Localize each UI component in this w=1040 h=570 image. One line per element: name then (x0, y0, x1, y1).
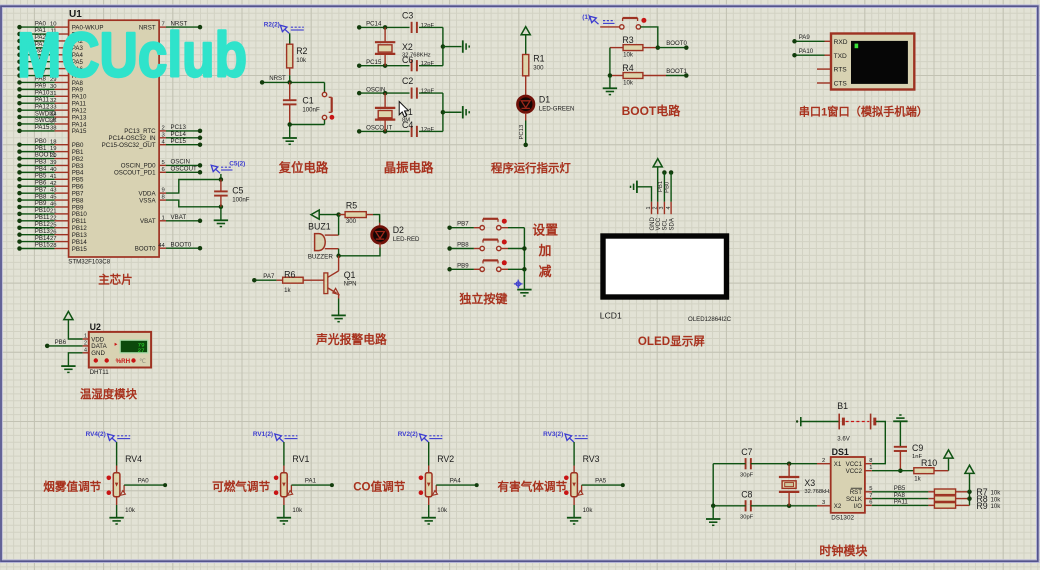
svg-text:8M: 8M (402, 118, 410, 124)
U1 left pin 21 (PB10) (55, 213, 69, 215)
BUZ1 pin top (325, 234, 339, 236)
wire net PA10 to U1 (20, 95, 55, 97)
wire to ground (443, 111, 462, 113)
svg-text:PB9: PB9 (457, 262, 469, 269)
push button PB9 (474, 268, 480, 270)
svg-text:PA4: PA4 (450, 478, 462, 485)
U1 left pin 40 (PB4) (55, 171, 69, 173)
svg-text:2: 2 (84, 341, 87, 347)
svg-text:PB6: PB6 (55, 339, 67, 346)
U1 left pin 34 (PA13) (55, 116, 69, 118)
U1 left pin 38 (PA15) (55, 130, 69, 132)
junction OSCOUT/crystal (383, 129, 388, 134)
node PB9 (447, 267, 452, 272)
U1 left pin 39 (PB3) (55, 164, 69, 166)
R2 lead to NRST node (289, 68, 291, 75)
wire net PB10 to U1 (20, 213, 55, 215)
junction C9/VCC2 (898, 468, 903, 473)
wire R10 to power (948, 458, 950, 470)
node PA0 (163, 483, 167, 487)
wire net PB8 (450, 248, 474, 250)
junction PB8 (522, 246, 527, 251)
ground OLED (rotated left) (636, 181, 638, 193)
svg-text:42: 42 (50, 181, 57, 187)
wire C8 right to X2 pin (751, 505, 817, 507)
serial terminal pin RXD (825, 40, 832, 42)
node NRST (198, 25, 203, 30)
wire net PB7 to U1 (20, 192, 55, 194)
wire battery to VCC1 (872, 422, 886, 464)
svg-text:RTS: RTS (834, 67, 848, 74)
junction R8 (967, 496, 972, 501)
wire D1 to PC13 (525, 113, 527, 121)
wire net PA11 to U1 (20, 102, 55, 104)
svg-text:X3: X3 (804, 478, 815, 488)
node OSCOUT (357, 129, 362, 134)
node PA3 (17, 46, 22, 51)
node SWDIO (17, 115, 22, 120)
wire net PA4 (436, 484, 477, 486)
wire to ground clock (712, 506, 714, 519)
svg-text:晶振电路: 晶振电路 (384, 160, 434, 175)
svg-text:温湿度模块: 温湿度模块 (80, 387, 138, 401)
capacitor C2 12pF (411, 88, 413, 99)
svg-text:2: 2 (162, 126, 165, 132)
wire net PA0 to U1 (20, 26, 55, 28)
wire button PB8 to common (508, 248, 524, 250)
svg-text:X1: X1 (834, 461, 842, 468)
wire net PA9 (795, 40, 825, 42)
svg-text:PA9: PA9 (799, 34, 811, 41)
U1 left pin 17 (PA7) (55, 75, 69, 77)
svg-text:9: 9 (162, 188, 165, 194)
wire common to ground (523, 269, 525, 289)
junction right (441, 44, 446, 49)
node PA9 (17, 87, 22, 92)
svg-text:R6: R6 (284, 270, 295, 280)
ground RV4 (109, 517, 123, 519)
wire net PB6 to U1 (20, 185, 55, 187)
svg-text:PB0: PB0 (665, 181, 671, 193)
RV2 wiper (435, 485, 437, 493)
wire net PC13 (166, 130, 200, 132)
U1 right pin 4 (PC15-OSC32_OUT) (159, 144, 166, 146)
U1 left pin 11 (PA1) (55, 33, 69, 35)
wire R3/R4 common (609, 48, 611, 76)
U1 right pin 1 (VBAT) (159, 220, 166, 222)
wire to ground (609, 76, 611, 88)
svg-text:VDDA: VDDA (139, 190, 157, 197)
svg-text:X2: X2 (834, 503, 842, 510)
svg-text:PA10: PA10 (799, 48, 814, 55)
wire VDDA to C5 top (166, 180, 221, 194)
U1 right pin 7 (NRST) (159, 26, 166, 28)
junction R5/BUZ1 (336, 212, 341, 217)
junction R4 left (608, 73, 613, 78)
potentiometer RV4 10k (113, 473, 120, 497)
U1 left pin 32 (PA11) (55, 102, 69, 104)
wire PB1 to SCL (663, 173, 665, 202)
resistor R10 1k (914, 468, 934, 474)
wire caps common left (712, 464, 714, 506)
ground keys (517, 289, 531, 291)
node PB9 (17, 205, 22, 210)
svg-text:BOOT电路: BOOT电路 (622, 103, 682, 118)
svg-text:10k: 10k (583, 507, 594, 514)
svg-text:OSCOUT_PD1: OSCOUT_PD1 (114, 170, 156, 177)
ground (rotated) (462, 40, 464, 52)
svg-text:(1): (1) (582, 14, 590, 21)
node PA4 (475, 483, 479, 487)
wire RV2 to ground (428, 497, 430, 505)
wire marker to R2 (289, 33, 291, 44)
svg-text:R3: R3 (622, 35, 633, 45)
svg-text:C9: C9 (912, 443, 923, 453)
resistor R9 10k (928, 504, 934, 506)
wire C1 to ground (289, 125, 291, 138)
node PC15 (198, 142, 203, 147)
U1 left pin 30 (PA9) (55, 88, 69, 90)
svg-text:GND: GND (650, 217, 656, 231)
svg-text:%RH: %RH (116, 358, 131, 365)
node PA1 (330, 483, 334, 487)
wire button PB9 to common (508, 268, 524, 270)
wire net PA4 to U1 (20, 54, 55, 56)
node OSCIN (357, 91, 362, 96)
svg-text:10k: 10k (623, 51, 634, 58)
transistor Q1 NPN (338, 256, 340, 271)
virtual terminal 串口1 body (831, 34, 914, 90)
svg-text:OSCOUT: OSCOUT (171, 166, 198, 173)
resistor R6 1k (276, 279, 282, 281)
wire PB0 to SDA (670, 173, 672, 202)
svg-text:加: 加 (538, 243, 552, 258)
capacitor C3 12pF (411, 22, 413, 33)
svg-text:SCL: SCL (663, 218, 669, 230)
wire net BOOT0 (658, 47, 687, 49)
svg-text:RV3: RV3 (583, 454, 600, 464)
svg-text:主芯片: 主芯片 (98, 272, 133, 286)
wire net BOOT0 (166, 247, 200, 249)
svg-text:RXD: RXD (834, 39, 848, 46)
svg-text:DS1302: DS1302 (831, 515, 854, 522)
node PA6 (17, 66, 22, 71)
U1 right pin 44 (BOOT0) (159, 247, 166, 249)
svg-text:C2: C2 (402, 76, 413, 86)
svg-text:可燃气调节: 可燃气调节 (212, 479, 270, 493)
crystal X2 32.768KHz (384, 27, 386, 42)
LED D2 LED-RED (379, 223, 381, 227)
wire C3 right (419, 26, 443, 28)
svg-text:BOOT0: BOOT0 (171, 241, 192, 248)
wire net OSCOUT (166, 171, 200, 173)
U2 pin 2 DATA (83, 345, 89, 347)
wire net PB9 (450, 268, 474, 270)
junction BOOT0 (656, 45, 661, 50)
mouse cursor (399, 102, 408, 117)
DS1 pin 5 RST (865, 491, 872, 493)
wire net PB3 to U1 (20, 164, 55, 166)
node PA11 (17, 101, 22, 106)
wire NRST net (262, 81, 324, 83)
svg-text:32.768kHz: 32.768kHz (804, 489, 832, 495)
U1 left pin 41 (PB5) (55, 178, 69, 180)
serial terminal pin CTS stub (817, 82, 831, 84)
potentiometer RV3 10k (571, 473, 578, 497)
wire C1 bottom to button (290, 124, 325, 126)
svg-text:2: 2 (822, 458, 825, 464)
wire net BOOT1 (666, 75, 686, 77)
svg-text:PC13: PC13 (519, 124, 525, 139)
resistor R3 10k (610, 47, 623, 49)
svg-text:VCC: VCC (656, 217, 662, 230)
ground RV1 (277, 517, 291, 519)
wire power to R1 (525, 35, 527, 55)
wire net OSCOUT (359, 130, 409, 132)
RV1 adjust buttons (274, 476, 279, 481)
svg-text:LCD1: LCD1 (600, 311, 622, 321)
U2 LCD readout (120, 340, 149, 354)
svg-text:27: 27 (138, 347, 145, 354)
node PA10 (17, 94, 22, 99)
node PB4 (17, 170, 22, 175)
wire net PB13 to U1 (20, 234, 55, 236)
wire net PA11 (872, 504, 929, 506)
node PB8 (17, 198, 22, 203)
svg-text:10k: 10k (437, 507, 448, 514)
U1 left pin 12 (PA2) (55, 40, 69, 42)
svg-text:R2(2): R2(2) (264, 21, 280, 28)
U1 left pin 26 (PB13) (55, 234, 69, 236)
svg-text:OSCOUT: OSCOUT (366, 125, 392, 132)
wire net PB5 (872, 491, 929, 493)
blue marker C5(2) (211, 165, 218, 171)
wire net PB5 to U1 (20, 178, 55, 180)
wire GND pin to ground (68, 353, 82, 366)
wire emitter to ground (338, 299, 340, 316)
power symbol VCC (indicator) (521, 27, 530, 35)
wire net PA0 (124, 484, 165, 486)
wire marker to RV4 (116, 442, 118, 466)
svg-text:PC15-OSC32_OUT: PC15-OSC32_OUT (102, 142, 156, 149)
svg-text:NPN: NPN (344, 280, 357, 287)
wire net PC15 (359, 65, 409, 67)
svg-text:RV2: RV2 (437, 454, 454, 464)
svg-text:46: 46 (50, 202, 57, 208)
svg-text:1k: 1k (914, 475, 921, 482)
blue origin marker (514, 280, 523, 289)
svg-text:Q1: Q1 (344, 270, 356, 280)
svg-text:PA15: PA15 (72, 128, 87, 135)
svg-text:VSSA: VSSA (139, 197, 156, 204)
resistor R4 10k (610, 75, 623, 77)
svg-text:串口1窗口（模拟手机端）: 串口1窗口（模拟手机端） (799, 104, 928, 118)
svg-text:D1: D1 (539, 95, 550, 105)
junction C1 bottom (287, 122, 292, 127)
wire button PB7 to common (508, 227, 524, 229)
node PA2 (17, 39, 22, 44)
U1 right pin 2 (PC13_RTC) (159, 130, 166, 132)
wire net PB14 to U1 (20, 241, 55, 243)
svg-text:R5: R5 (346, 200, 357, 210)
svg-text:BOOT0: BOOT0 (135, 246, 156, 253)
svg-text:BOOT1: BOOT1 (666, 68, 687, 75)
resistor R8 10k (928, 498, 934, 500)
svg-text:C8: C8 (741, 489, 752, 499)
LCD1 pin 2 VCC (657, 202, 659, 214)
svg-text:C5(2): C5(2) (229, 161, 245, 168)
svg-text:RV3(2): RV3(2) (543, 431, 563, 438)
svg-text:PC14: PC14 (366, 21, 382, 28)
node PA4 (17, 53, 22, 58)
wire net PA7 to U1 (20, 75, 55, 77)
svg-text:R1: R1 (533, 53, 544, 63)
wire net PB7 (450, 227, 474, 229)
ground clock module (706, 518, 720, 520)
svg-text:VCC1: VCC1 (846, 461, 863, 468)
svg-text:28: 28 (50, 243, 57, 249)
node PB8 (447, 246, 452, 251)
svg-text:PA1: PA1 (305, 478, 317, 485)
svg-text:X2: X2 (402, 42, 413, 52)
junction X3 bottom (787, 504, 792, 509)
wire marker to RV3 (573, 442, 575, 466)
node NRST left (260, 80, 265, 85)
push button reset (324, 82, 326, 92)
svg-text:C1: C1 (302, 96, 313, 106)
R1 lead to D1 (525, 76, 527, 96)
svg-text:VCC2: VCC2 (846, 468, 863, 475)
wire net OSCIN (359, 92, 409, 94)
wire C5 to ground (220, 207, 222, 220)
U1 left pin 28 (PB15) (55, 248, 69, 250)
svg-text:PC15: PC15 (366, 59, 382, 66)
LED D1 LED-GREEN (518, 96, 534, 112)
resistor R5 300 (339, 214, 346, 216)
node PA7 (252, 278, 256, 283)
U1 left pin 15 (PA5) (55, 61, 69, 63)
U1 left pin 33 (PA12) (55, 109, 69, 111)
DS1 pin 2 X1 (817, 463, 831, 465)
ground RV3 (567, 517, 581, 519)
svg-text:30pF: 30pF (740, 515, 754, 521)
svg-text:30pF: 30pF (740, 472, 754, 478)
junction C8 left (711, 504, 716, 509)
svg-text:U1: U1 (69, 9, 82, 20)
wire marker to RV1 (283, 442, 285, 466)
ground above C9 (inverted) (899, 414, 901, 416)
junction PC15/crystal (383, 63, 388, 68)
wire net PA8 (872, 498, 929, 500)
sensor U2 DHT11 body (89, 332, 151, 368)
svg-text:3: 3 (659, 207, 665, 210)
wire C7 right to X1 pin (751, 463, 817, 465)
svg-text:BUZ1: BUZ1 (308, 221, 331, 231)
wire net SWCLK to U1 (20, 123, 55, 125)
ground alarm (331, 314, 345, 316)
crystal X1 8M (384, 93, 386, 108)
wire net PA1 to U1 (20, 33, 55, 35)
node OSCIN (198, 163, 203, 168)
node PB14 (17, 239, 22, 244)
svg-text:3.6V: 3.6V (837, 436, 850, 443)
wire net SWDIO to U1 (20, 116, 55, 118)
node PB1 (17, 149, 22, 154)
ground DHT11 (61, 365, 75, 367)
svg-text:OLED显示屏: OLED显示屏 (638, 335, 705, 348)
wire net PA5 (582, 484, 623, 486)
svg-text:BUZZER: BUZZER (308, 253, 334, 260)
ground reset circuit (283, 137, 297, 139)
wire D2 to common (379, 243, 381, 247)
crystal X3 32.768kHz (788, 464, 790, 477)
LCD1 pin 1 GND (651, 202, 653, 214)
svg-text:31: 31 (50, 91, 57, 97)
terminal cursor (855, 44, 859, 49)
node PB7 (17, 191, 22, 196)
node PB5 (17, 177, 22, 182)
wire net PA10 (795, 54, 825, 56)
svg-text:C3: C3 (402, 10, 413, 20)
svg-text:100nF: 100nF (302, 107, 320, 114)
DS1 pin 1 VCC2 (865, 470, 872, 472)
svg-text:℃: ℃ (139, 358, 146, 365)
power symbol pull-ups (965, 465, 974, 473)
U1 right pin 5 (OSCIN_PD0) (159, 164, 166, 166)
svg-text:10k: 10k (296, 57, 307, 64)
OLED module LCD1 screen (603, 236, 727, 297)
junction right (441, 110, 446, 115)
wire BUZ1 to collector (338, 249, 340, 256)
RV3 adjust buttons (564, 476, 569, 481)
node PB0 (17, 142, 22, 147)
svg-text:39: 39 (50, 160, 57, 166)
node PB13 (17, 232, 22, 237)
svg-text:100nF: 100nF (232, 196, 250, 203)
svg-text:CO值调节: CO值调节 (353, 479, 406, 493)
wire keys common vertical (523, 228, 525, 270)
wire net PB9 to U1 (20, 206, 55, 208)
svg-text:U2: U2 (90, 322, 101, 332)
node PB0 (669, 170, 674, 175)
svg-text:10k: 10k (991, 503, 1002, 510)
svg-text:1: 1 (162, 215, 165, 221)
junction C5 bottom (219, 205, 224, 210)
svg-text:8: 8 (869, 458, 872, 464)
node PA5 (17, 59, 22, 64)
wire net OSCIN (166, 164, 200, 166)
junction PC14/crystal (383, 25, 388, 30)
svg-text:MCUclub: MCUclub (17, 21, 247, 91)
node BOOT1 (684, 73, 689, 78)
svg-text:10k: 10k (292, 507, 303, 514)
svg-text:STM32F103C8: STM32F103C8 (68, 258, 111, 265)
wire C6 right (419, 65, 443, 67)
DS1 pin 7 SCLK (865, 498, 872, 500)
wire net PC14 (166, 137, 200, 139)
svg-text:32.768KHz: 32.768KHz (402, 53, 431, 59)
svg-text:BOOT0: BOOT0 (666, 40, 687, 47)
svg-text:声光报警电路: 声光报警电路 (315, 332, 387, 346)
potentiometer RV2 10k (425, 473, 432, 497)
wire power to VDD (68, 320, 82, 339)
wire net PB4 to U1 (20, 171, 55, 173)
ground below C5 (214, 219, 228, 221)
node PA1 (17, 32, 22, 37)
U1 left pin 45 (PB8) (55, 199, 69, 201)
RV4 wiper (123, 485, 125, 493)
U1 left pin 22 (PB11) (55, 220, 69, 222)
